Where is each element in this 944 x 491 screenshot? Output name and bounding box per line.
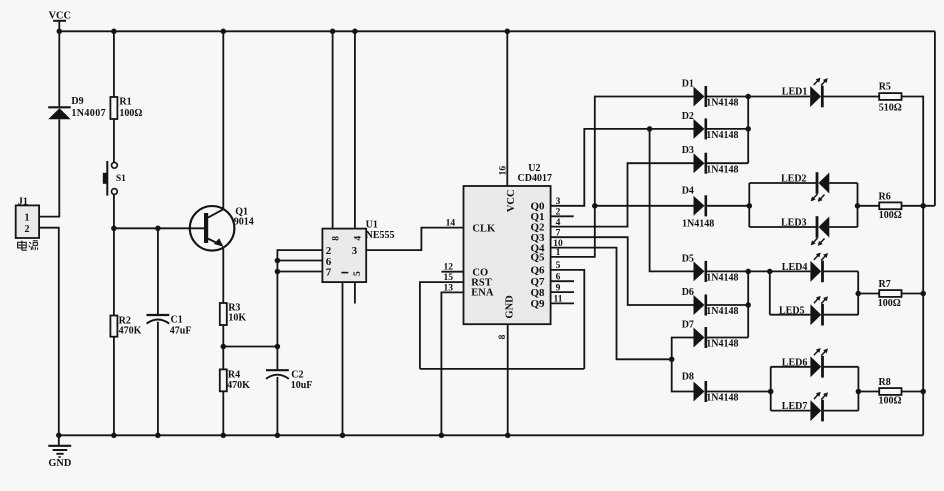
junction ground U1 pin1	[340, 433, 346, 439]
wire D3 to bus	[706, 162, 748, 164]
pin GND of U2	[504, 295, 515, 319]
wire R6 to VCC corner	[902, 205, 935, 207]
pin 5 of U1	[341, 271, 363, 276]
wire LED4 to box right	[824, 270, 859, 272]
wire R5 to return bus	[902, 97, 924, 206]
svg-text:J1: J1	[18, 196, 28, 207]
wire return bus	[922, 206, 924, 435]
wire U1 output to U2 CLK	[366, 228, 463, 251]
value 9014	[234, 216, 254, 227]
svg-text:LED1: LED1	[782, 86, 808, 97]
pin 11 label	[554, 295, 563, 305]
label R4	[228, 369, 240, 380]
diode D7	[694, 327, 706, 348]
svg-text:LED7: LED7	[782, 401, 808, 412]
svg-text:S1: S1	[116, 174, 126, 184]
junction pin6 tie	[275, 258, 281, 264]
wire S1 to base node	[113, 194, 115, 228]
resistor R2	[110, 316, 117, 337]
LED LED3	[811, 216, 830, 246]
junction ground R2	[111, 433, 117, 439]
value 1N4148 D4	[682, 218, 714, 229]
svg-text:D2: D2	[682, 111, 694, 122]
svg-text:2: 2	[25, 224, 30, 235]
junction R3-R4-C2 node left	[221, 344, 227, 350]
value 1N4148 D8	[706, 393, 738, 404]
pin Q6 of U2	[531, 265, 546, 277]
svg-text:10uF: 10uF	[291, 380, 313, 391]
pin 15 label	[444, 273, 454, 283]
wire VCC rail	[59, 30, 935, 32]
value CD4017	[518, 173, 552, 184]
label D4	[682, 185, 694, 196]
label LED3	[781, 217, 807, 228]
wire LED45 to R7	[858, 293, 879, 295]
wire LED3 row left	[749, 226, 816, 228]
value 10uF	[291, 380, 313, 391]
svg-text:1N4148: 1N4148	[706, 339, 738, 350]
svg-text:R8: R8	[879, 377, 891, 388]
wire LED5 row right	[824, 314, 859, 316]
svg-text:470K: 470K	[119, 326, 142, 337]
label D3	[682, 145, 694, 156]
wire Q6 to reset net	[551, 270, 585, 369]
diode D2	[694, 118, 706, 139]
pin Q8 of U2	[531, 287, 546, 299]
label D9	[71, 96, 83, 107]
op-amp U1 NE555 body	[322, 229, 366, 283]
wire R3 to node	[222, 325, 224, 347]
value 1N4007	[71, 108, 106, 119]
switch S1	[103, 161, 118, 196]
wire R4 to ground	[222, 391, 224, 435]
svg-text:1N4148: 1N4148	[706, 98, 738, 109]
wire LED1 to R5	[824, 96, 880, 98]
pin 6 of U1	[326, 256, 332, 268]
pin 9 label	[556, 283, 561, 293]
pin Q1 of U2	[531, 211, 545, 223]
junction pin7 tie	[275, 269, 281, 275]
svg-text:7: 7	[326, 267, 332, 279]
value 1N4148 D3	[706, 164, 738, 175]
svg-text:1N4148: 1N4148	[706, 306, 738, 317]
value 510ohm	[879, 102, 902, 113]
pin 13 label	[444, 283, 454, 293]
wire Q4 net to D7	[672, 338, 694, 360]
pin 16 of U2	[499, 166, 509, 176]
label R6	[879, 192, 891, 203]
IC U2 CD4017 body	[464, 186, 551, 324]
svg-text:R6: R6	[879, 192, 891, 203]
label LED4	[782, 262, 808, 273]
junction VCC-U1 pin4	[352, 29, 358, 35]
pin 3 of U1	[352, 245, 358, 257]
wire Q2 to D3	[551, 163, 694, 226]
pin Q0 of U2	[531, 201, 546, 213]
svg-text:LED6: LED6	[782, 357, 808, 368]
pin 8 of U2	[498, 334, 508, 339]
wire D9 to J1 pin1	[39, 119, 59, 216]
wire LED23 left side	[748, 183, 750, 227]
svg-text:14: 14	[446, 219, 456, 229]
svg-text:CLK: CLK	[472, 224, 496, 235]
wire LED45 left side	[769, 271, 771, 314]
svg-text:D6: D6	[682, 287, 694, 298]
svg-text:1: 1	[25, 213, 30, 224]
junction ground C2	[275, 433, 281, 439]
svg-text:1N4007: 1N4007	[71, 108, 106, 119]
wire J1 pin2 to ground	[39, 228, 59, 436]
transistor Q1	[190, 206, 235, 251]
junction Q4 net split	[669, 357, 675, 363]
wire R8 to return bus	[902, 391, 924, 393]
wire D5-D7 cathode bus	[747, 271, 749, 337]
wire reset net under U2	[420, 368, 584, 370]
wire bus to LED1	[748, 96, 810, 98]
junction R7 at return bus	[920, 291, 926, 297]
pin CLK of U2	[472, 224, 496, 235]
svg-text:8: 8	[331, 236, 341, 241]
diode D3	[694, 153, 706, 174]
wire node to C2	[276, 347, 278, 370]
svg-text:D5: D5	[682, 253, 694, 264]
wire U1 pin7 row	[277, 271, 322, 273]
svg-text:U1: U1	[366, 219, 378, 230]
pin 2 label	[556, 208, 561, 218]
svg-text:13: 13	[444, 283, 454, 293]
LED LED1	[810, 78, 828, 108]
junction bus at D1	[745, 94, 751, 100]
resistor R3	[220, 303, 227, 325]
wire LED67 right side	[857, 367, 859, 411]
value 470K R4	[227, 380, 250, 391]
wire D6 to bus	[706, 304, 748, 306]
svg-text:9014: 9014	[234, 216, 254, 227]
diode D8	[694, 381, 706, 402]
wire LED6 row right	[824, 366, 859, 368]
label LED1	[782, 86, 808, 97]
resistor R1	[110, 97, 117, 119]
svg-text:VCC: VCC	[506, 189, 517, 212]
value 1N4148 D6	[706, 306, 738, 317]
junction LED67 left at D8	[768, 389, 774, 395]
wire Q7 stub	[551, 280, 574, 282]
junction bus at D5	[745, 269, 751, 275]
wire Q0 net to D5	[650, 129, 694, 272]
wire Q5 net to D4	[595, 205, 694, 207]
label C2	[291, 369, 303, 380]
svg-text:10K: 10K	[228, 313, 246, 324]
junction Q0 net at D5 branch	[647, 126, 653, 132]
wire U2 pin8 to ground	[507, 324, 509, 435]
wire Q9 stub	[551, 302, 574, 304]
label R8	[879, 377, 891, 388]
LED LED6	[810, 348, 828, 378]
diode D1	[694, 86, 706, 107]
svg-text:LED4: LED4	[782, 262, 808, 273]
svg-text:R7: R7	[879, 279, 891, 290]
wire Q5 riser	[551, 97, 694, 257]
svg-text:100Ω: 100Ω	[879, 210, 902, 221]
wire D7 to bus	[706, 337, 748, 339]
wire LED45 right side	[857, 271, 859, 314]
label power (Chinese)	[18, 241, 38, 251]
LED LED4	[810, 253, 828, 283]
label D1	[682, 79, 694, 90]
wire node to C1	[157, 228, 159, 314]
wire VCC right drop	[934, 31, 936, 206]
label D5	[682, 253, 694, 264]
wire node horizontal to C2	[223, 346, 277, 348]
wire Q3 to D6	[551, 237, 694, 305]
label R1	[119, 96, 131, 107]
wire U1 pin6 row	[277, 260, 322, 262]
diode D4	[694, 195, 706, 216]
pin Q4 of U2	[531, 242, 546, 254]
label S1	[116, 174, 126, 184]
pin 1 label	[556, 248, 561, 258]
wire node to R2	[113, 228, 115, 315]
svg-text:470K: 470K	[227, 380, 250, 391]
svg-text:4: 4	[354, 236, 364, 241]
svg-text:47uF: 47uF	[170, 326, 192, 337]
wire base row	[114, 227, 204, 229]
svg-text:R1: R1	[119, 96, 131, 107]
junction R8 at return bus	[920, 389, 926, 395]
svg-text:GND: GND	[48, 458, 71, 469]
value 1N4148 D5	[706, 273, 738, 284]
resistor R7	[879, 290, 901, 297]
wire D1 to bus	[706, 96, 748, 98]
wire U1 pin5 stub	[354, 282, 356, 303]
wire Q8 stub	[551, 291, 574, 293]
pin Q9 of U2	[531, 298, 546, 310]
junction LED45 right at R7	[855, 291, 861, 297]
wire node to R4	[222, 347, 224, 370]
svg-text:D3: D3	[682, 145, 694, 156]
pin RST of U2	[471, 278, 491, 289]
svg-text:8: 8	[498, 334, 508, 339]
wire R1 to S1	[113, 119, 115, 162]
svg-text:C2: C2	[291, 369, 303, 380]
wire LED2 row left	[749, 182, 816, 184]
junction LED23 right	[855, 203, 861, 209]
svg-text:ENA: ENA	[471, 287, 494, 298]
wire C1 to ground	[157, 322, 159, 436]
wire VCC to D9	[58, 31, 60, 106]
junction LED45 left	[767, 269, 773, 275]
label Q1	[235, 207, 248, 218]
wire VCC to Q1 collector	[222, 31, 224, 209]
junction ground R4	[221, 433, 227, 439]
junction base row at C1	[155, 226, 161, 232]
wire LED2 row right	[829, 182, 857, 184]
wire CO stub pin12	[441, 271, 463, 273]
svg-text:100Ω: 100Ω	[119, 108, 142, 119]
resistor R8	[879, 388, 901, 395]
junction VCC-D9	[57, 29, 63, 35]
ground	[48, 435, 71, 457]
wire LED6 row left	[771, 366, 811, 368]
svg-text:Q6: Q6	[531, 265, 546, 277]
svg-text:D1: D1	[682, 79, 694, 90]
svg-text:R4: R4	[228, 369, 240, 380]
value 1N4148 D2	[706, 130, 738, 141]
pin 8 of U1	[331, 236, 341, 241]
junction ground U2 pin13	[439, 433, 445, 439]
pin 12 label	[444, 263, 454, 273]
label C1	[171, 314, 183, 325]
wire Q1 emitter to R3	[222, 247, 224, 303]
svg-text:C1: C1	[171, 314, 183, 325]
svg-text:Q5: Q5	[531, 252, 546, 264]
pin Q7 of U2	[531, 276, 546, 288]
svg-text:LED3: LED3	[781, 217, 807, 228]
svg-text:D4: D4	[682, 185, 694, 196]
junction bus at D2	[745, 126, 751, 132]
wire D4 to LED23 box	[706, 205, 750, 207]
svg-text:510Ω: 510Ω	[879, 102, 902, 113]
wire R2 to ground	[113, 337, 115, 436]
svg-text:16: 16	[499, 166, 509, 176]
pin 1 of J1	[25, 213, 30, 224]
wire VCC to R1	[113, 31, 115, 97]
svg-text:15: 15	[444, 273, 454, 283]
svg-text:CD4017: CD4017	[518, 173, 552, 184]
wire LED23 right side	[857, 183, 859, 227]
wire ground rail	[59, 434, 923, 436]
wire C2 to ground	[276, 377, 278, 435]
svg-text:Q9: Q9	[531, 298, 546, 310]
wire R7 to return bus	[902, 293, 924, 295]
value 10K	[228, 313, 246, 324]
label R5	[879, 82, 891, 93]
junction VCC-U2 pin16	[505, 29, 511, 35]
label LED5	[779, 305, 805, 316]
label LED7	[782, 401, 808, 412]
wire LED23 to R6	[858, 205, 880, 207]
capacitor C1	[147, 315, 170, 324]
label U1	[366, 219, 378, 230]
LED LED2	[811, 172, 830, 202]
svg-text:R5: R5	[879, 82, 891, 93]
wire LED67 left side	[770, 367, 772, 411]
label U2	[528, 163, 540, 174]
value 1N4148 D1	[706, 98, 738, 109]
pin Q3 of U2	[531, 232, 546, 244]
wire U1 pin2 row	[277, 250, 322, 346]
svg-text:1N4148: 1N4148	[706, 273, 738, 284]
pin VCC of U2	[506, 189, 517, 212]
value 100ohm R7	[878, 298, 901, 309]
pin 5 label	[556, 261, 561, 271]
junction ground C1	[155, 433, 161, 439]
value NE555	[366, 230, 395, 241]
label J1	[18, 196, 28, 207]
connector J1	[16, 205, 39, 238]
svg-text:D8: D8	[682, 372, 694, 383]
pin CO of U2	[472, 267, 488, 278]
capacitor C2	[266, 370, 289, 379]
junction R6 row at return bus	[920, 203, 926, 209]
value 100ohm R1	[119, 108, 142, 119]
resistor R6	[879, 202, 901, 209]
pin 2 of U1	[326, 245, 332, 257]
wire D2 to bus	[706, 128, 748, 130]
wire bus to LED4 row	[748, 270, 810, 272]
svg-text:1N4148: 1N4148	[706, 130, 738, 141]
label LED2	[781, 173, 807, 184]
wire LED67 to R8	[858, 391, 879, 393]
wire Q1 stub	[551, 215, 574, 217]
resistor R5	[879, 93, 901, 100]
pin 4 of U1	[354, 236, 364, 241]
svg-text:1N4148: 1N4148	[706, 164, 738, 175]
wire ENA pin13 to ground	[441, 292, 463, 435]
svg-text:LED2: LED2	[781, 173, 807, 184]
pin 4 label	[556, 218, 561, 228]
junction LED23 left	[747, 203, 753, 209]
wire Q4 to diode bus	[551, 248, 672, 360]
wire LED5 row left	[770, 314, 811, 316]
label D8	[682, 372, 694, 383]
svg-text:Q8: Q8	[531, 287, 546, 299]
svg-text:100Ω: 100Ω	[878, 298, 901, 309]
wire LED7 row left	[771, 410, 811, 412]
node VCC power symbol	[49, 10, 71, 31]
value 1N4148 D7	[706, 339, 738, 350]
svg-text:D7: D7	[682, 320, 694, 331]
pin 2 of J1	[25, 224, 30, 235]
svg-text:3: 3	[352, 245, 358, 257]
wire Q0 to D2	[551, 129, 694, 206]
pin Q5 of U2	[531, 252, 546, 264]
wire U2 pin16 to VCC	[506, 31, 508, 186]
value 470K R2	[119, 326, 142, 337]
pin 10 label	[553, 239, 563, 249]
svg-text:1N4148: 1N4148	[706, 393, 738, 404]
junction VCC-R1	[111, 29, 117, 35]
wire D1-D3 cathode bus	[747, 97, 749, 164]
wire LED3 row right	[829, 226, 857, 228]
label R3	[228, 303, 240, 314]
pin Q2 of U2	[531, 221, 546, 233]
svg-text:5: 5	[353, 271, 363, 276]
wire U1 pin4 to VCC	[354, 31, 356, 228]
wire Q4 net to D8	[672, 359, 694, 391]
junction VCC-Q1 collector	[221, 29, 227, 35]
svg-text:LED5: LED5	[779, 305, 805, 316]
svg-text:NE555: NE555	[366, 230, 395, 241]
value 100ohm R8	[879, 396, 902, 407]
svg-text:GND: GND	[504, 295, 515, 319]
pin 3 label	[556, 197, 561, 207]
value 47uF	[170, 326, 192, 337]
diode D6	[694, 295, 706, 316]
label LED6	[782, 357, 808, 368]
svg-text:12: 12	[444, 263, 454, 273]
svg-text:100Ω: 100Ω	[879, 396, 902, 407]
pin ENA of U2	[471, 287, 494, 298]
wire D5 to bus	[706, 270, 748, 272]
label D7	[682, 320, 694, 331]
svg-text:1N4148: 1N4148	[682, 218, 714, 229]
value 100ohm R6	[879, 210, 902, 221]
wire U1 pin1 to ground	[342, 282, 344, 435]
pin 14 label	[446, 219, 456, 229]
svg-text:D9: D9	[71, 96, 83, 107]
junction base row at R2	[111, 226, 117, 232]
